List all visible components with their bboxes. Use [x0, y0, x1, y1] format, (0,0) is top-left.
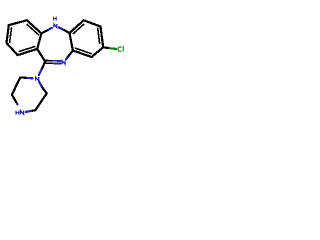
piperazine bond N1'-C2' black half: [43, 88, 47, 94]
bond P6 to N5 blue half: [48, 28, 51, 30]
bond P5 to C11: [37, 49, 45, 62]
left benzene double bond inner line P6-P1: [27, 25, 38, 35]
C11=N10 double bond upper line black half: [46, 60, 54, 62]
right benzene double bond inner line E-F: [75, 48, 91, 54]
piperazine bond C3'-N4' blue half: [26, 110, 31, 113]
piperazine bond C6'-N1' blue half: [27, 77, 33, 80]
right benzene double bond inner line C-D: [98, 28, 100, 43]
bond P6 to N5 black half: [41, 30, 48, 34]
bond C11 to N1' black half: [41, 62, 45, 70]
atom label N5: [54, 24, 57, 28]
atom label H on N5: [54, 17, 57, 21]
bond D to Cl green half: [110, 47, 116, 50]
right benzene ring outline: [70, 20, 104, 57]
left benzene double bond inner line P2-P3: [10, 28, 12, 42]
piperazine bond C6'-N1' black half: [20, 76, 27, 79]
piperazine bond N4'-C5' black half: [12, 95, 16, 102]
bond D to Cl black half: [103, 46, 110, 49]
C11=N10 double bond lower line blue half: [53, 62, 60, 64]
atom label Cl chlorine C: [118, 47, 122, 51]
atom label N4' of piperazine: [21, 111, 24, 115]
piperazine bond C5'-C6': [12, 77, 20, 94]
right benzene double bond inner line A-B: [73, 24, 83, 33]
C11=N10 double bond lower line black half: [46, 62, 54, 64]
bond C11 to N1' blue half: [39, 70, 42, 75]
atom label N1' of piperazine: [36, 77, 39, 81]
bond N5 to A blue half: [59, 27, 65, 30]
atom label H of HN4': [16, 111, 19, 115]
piperazine bond N4'-C5' blue half: [16, 102, 17, 104]
atom label Cl chlorine l: [122, 46, 124, 52]
atom label N10: [62, 61, 65, 65]
bond N10 to F blue half: [66, 56, 68, 59]
bond N10 to F black half: [68, 51, 73, 57]
piperazine bond C3'-N4' black half: [31, 109, 35, 112]
C11=N10 double bond upper line blue half: [53, 60, 60, 62]
piperazine bond C2'-C3': [35, 93, 47, 110]
left benzene ring outline: [7, 20, 42, 55]
left benzene double bond inner line P4-P5: [19, 47, 35, 52]
piperazine bond N1'-C2' blue half: [39, 81, 43, 87]
bond N5 to A black half: [65, 30, 70, 33]
